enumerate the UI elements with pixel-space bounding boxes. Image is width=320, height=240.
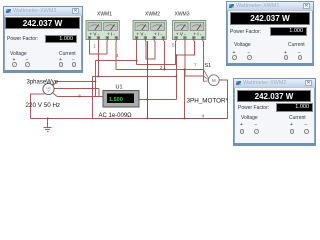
svg-text:3: 3 [116,53,119,58]
svg-text:1: 1 [93,44,96,49]
svg-text:+ I -: + I - [194,32,202,37]
svg-text:3PH_MOTOR*: 3PH_MOTOR* [187,98,229,105]
svg-text:+ I -: + I - [107,32,115,37]
svg-text:5: 5 [172,43,175,48]
svg-text:V: V [48,89,50,93]
svg-text:+ V -: + V - [176,32,186,37]
svg-text:S1: S1 [205,63,212,69]
svg-text:3phaseWye: 3phaseWye [27,80,59,86]
svg-text:AC 1e-009Ω: AC 1e-009Ω [99,113,133,119]
svg-text:XWM3: XWM3 [175,12,190,18]
svg-text:XWM1: XWM1 [97,12,112,18]
svg-text:4: 4 [202,113,205,118]
svg-text:U1: U1 [116,85,123,91]
svg-text:M: M [212,78,216,83]
svg-text:220 V 50 Hz: 220 V 50 Hz [26,102,61,109]
svg-text:+ I -: + I - [154,32,162,37]
svg-text:7: 7 [194,63,197,68]
svg-text:1.500: 1.500 [109,97,123,103]
svg-text:+ V -: + V - [136,32,146,37]
svg-text:+ V -: + V - [89,32,99,37]
svg-text:XWM2: XWM2 [145,12,160,18]
